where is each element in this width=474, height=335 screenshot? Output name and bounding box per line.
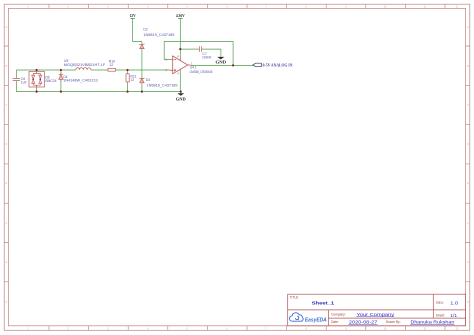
svg-text:Your Company: Your Company — [357, 312, 396, 317]
svg-text:SMC24: SMC24 — [45, 79, 56, 83]
resistor R11 — [126, 74, 129, 82]
svg-text:Drawn By:: Drawn By: — [386, 320, 401, 324]
port flag 0-5V ANALOG IN — [253, 63, 261, 66]
svg-text:4.36V: 4.36V — [176, 14, 185, 18]
svg-text:GND: GND — [216, 60, 227, 64]
junction pin8/C7 supply node — [179, 48, 181, 50]
op-amp U4.1 LM358 — [170, 56, 190, 74]
wire bottom ground rail — [16, 91, 180, 93]
svg-text:Sheet_1: Sheet_1 — [312, 300, 335, 306]
junction D4 bottom node — [60, 91, 62, 93]
diode D2 (schottky) — [140, 44, 144, 49]
svg-text:1N5819_C437189: 1N5819_C437189 — [147, 83, 178, 87]
svg-text:LM358_C504545: LM358_C504545 — [190, 70, 213, 74]
svg-text:REV:: REV: — [436, 301, 443, 305]
wire C7 decoupling to GND — [180, 49, 221, 57]
junction D6 bottom node — [36, 91, 38, 93]
junction R11 top node — [126, 69, 128, 71]
svg-text:12V: 12V — [129, 14, 136, 18]
wire feedback loop pin2 to output — [164, 42, 233, 66]
diode D3 (schottky) — [140, 78, 144, 83]
junction D6 top node — [36, 69, 38, 71]
svg-text:G: G — [467, 262, 469, 264]
svg-text:1N4148W_C402213: 1N4148W_C402213 — [63, 79, 98, 83]
diode D4 — [59, 72, 63, 81]
svg-text:1/1: 1/1 — [450, 313, 458, 318]
wire 12V to D2/D3 vertical — [133, 18, 142, 91]
svg-text:12: 12 — [130, 78, 134, 82]
junction output/feedback node — [232, 64, 234, 66]
svg-text:D2: D2 — [143, 28, 147, 32]
ground symbol below op-amp — [180, 92, 182, 94]
resistor R10 — [108, 68, 116, 71]
capacitor C7 — [199, 46, 201, 52]
svg-text:12: 12 — [109, 63, 113, 67]
svg-text:MGQB321VB8D1HT-LF: MGQB321VB8D1HT-LF — [64, 63, 106, 67]
svg-text:100nF: 100nF — [202, 55, 212, 59]
inductor U5 — [76, 68, 91, 70]
wire op-amp pin4 to ground rail — [179, 71, 181, 91]
svg-text:G: G — [6, 262, 8, 264]
svg-text:Date:: Date: — [331, 320, 339, 324]
wire left vertical with C6 — [15, 70, 17, 92]
wire 4.36V to op-amp pin 8 — [179, 18, 181, 57]
svg-text:GND: GND — [176, 97, 186, 101]
junction D4 top node — [60, 69, 62, 71]
svg-text:D3: D3 — [146, 78, 150, 82]
wire output to port — [191, 64, 253, 66]
svg-text:EasyEDA: EasyEDA — [305, 317, 327, 323]
ground symbol near C7 — [217, 57, 224, 60]
svg-text:2020-08-27: 2020-08-27 — [349, 320, 378, 325]
svg-text:0-5V ANALOG IN: 0-5V ANALOG IN — [263, 63, 293, 67]
svg-text:1N5819_C437189: 1N5819_C437189 — [143, 33, 174, 37]
svg-text:1uF: 1uF — [21, 81, 27, 85]
svg-text:Dhanuka Rukshan: Dhanuka Rukshan — [411, 320, 456, 325]
TVS D6 SMC24 — [29, 70, 45, 92]
svg-text:Sheet:: Sheet: — [436, 314, 445, 318]
junction R11 bottom node — [126, 91, 128, 93]
capacitor C6 — [13, 79, 21, 81]
junction pin4/ground rail node — [180, 91, 182, 93]
svg-text:Company:: Company: — [331, 312, 346, 316]
power flag 4.36V — [178, 17, 183, 19]
junction D3 bottom node — [141, 91, 143, 93]
svg-text:1.0: 1.0 — [450, 301, 459, 306]
svg-text:TITLE:: TITLE: — [290, 295, 300, 299]
EasyEDA logo — [289, 313, 303, 321]
wire R11 branch — [127, 70, 129, 92]
power flag 12V — [130, 17, 135, 19]
wire D4 branch — [60, 70, 62, 92]
wire main signal line y=70 — [16, 69, 170, 71]
